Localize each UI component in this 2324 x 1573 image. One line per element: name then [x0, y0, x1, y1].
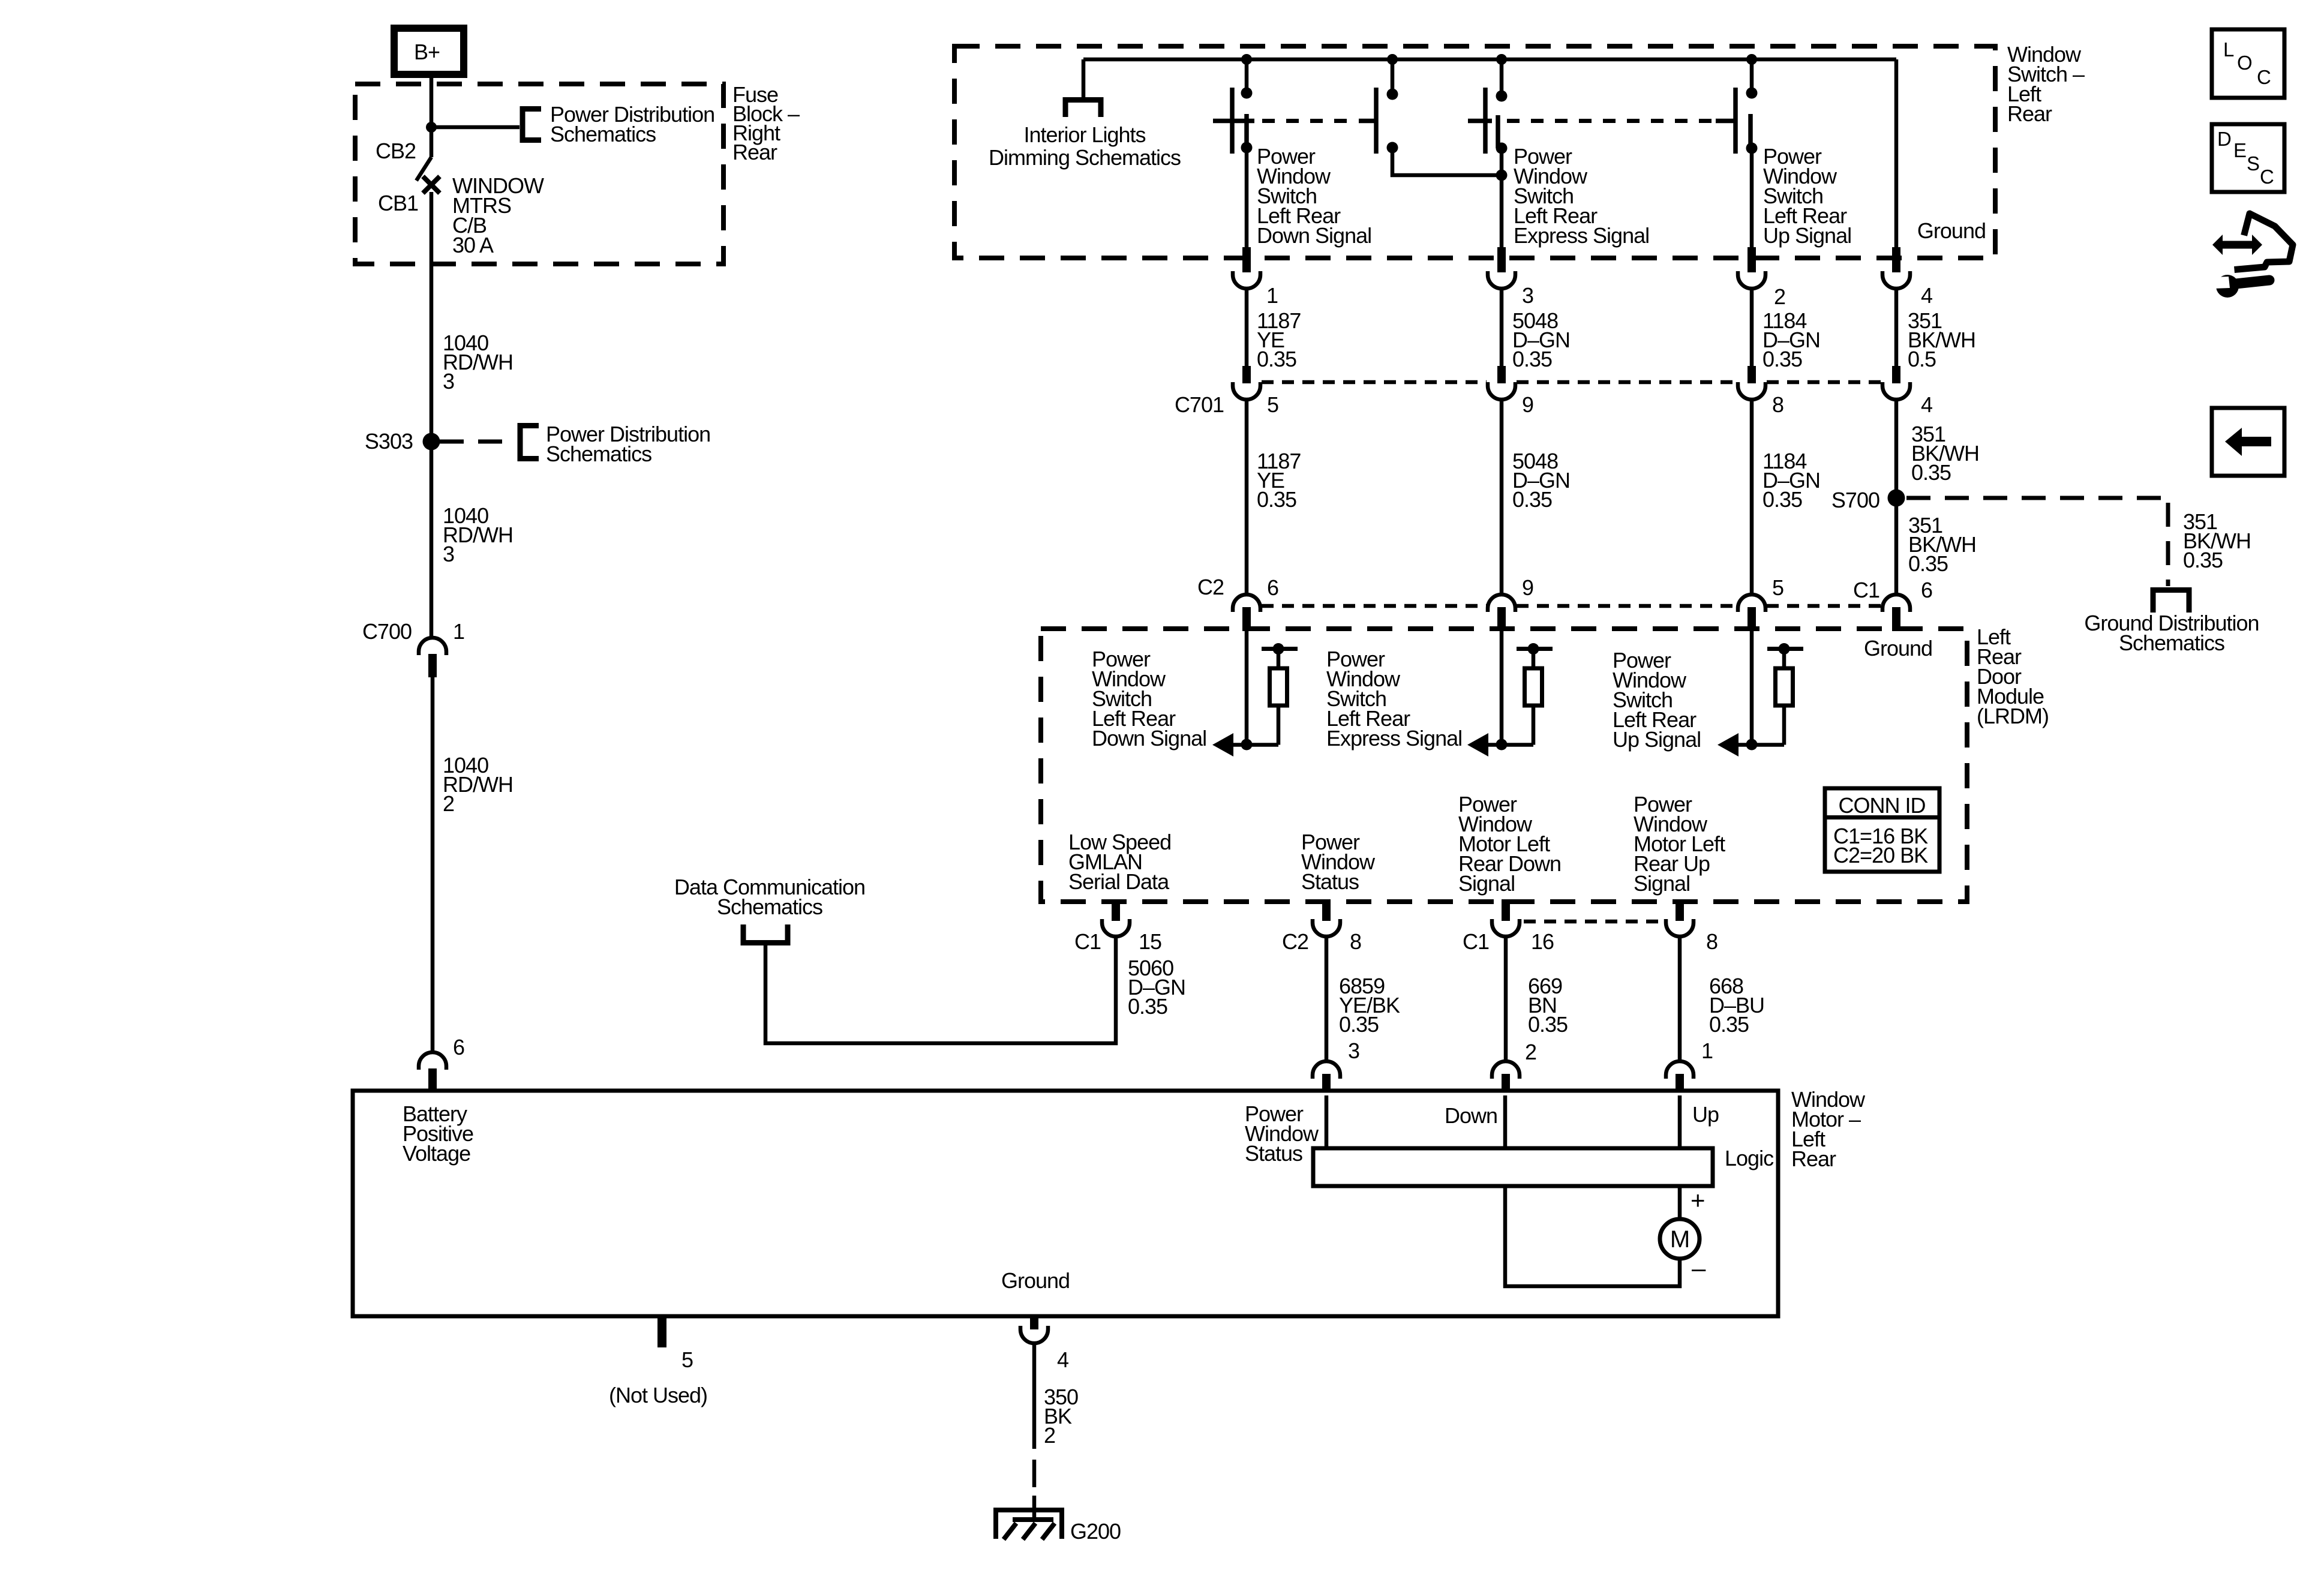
- switch SW2 express contacts: [1359, 59, 1398, 154]
- svg-text:30 A: 30 A: [452, 233, 494, 257]
- connector pin 3 (switch): [1488, 247, 1515, 289]
- node: junction in fuse block: [426, 122, 437, 133]
- svg-text:5: 5: [1267, 392, 1278, 417]
- wire 5048 D-GN upper segment: [1500, 289, 1504, 367]
- wire 1184 D-GN upper segment: [1750, 289, 1754, 367]
- svg-text:Logic: Logic: [1725, 1146, 1774, 1170]
- wire 1184 D-GN lower segment: [1750, 398, 1754, 595]
- connector C1 pin 6 (LRDM ground): [1882, 595, 1910, 631]
- svg-text:M: M: [1670, 1226, 1689, 1253]
- connector C2 pin 6 (LRDM): [1233, 595, 1260, 631]
- label Power Window Switch Left Rear Down Signal (top box): [1257, 144, 1371, 248]
- svg-text:Rear: Rear: [1791, 1146, 1836, 1171]
- svg-text:4: 4: [1057, 1347, 1068, 1372]
- arrow express-signal input: [1467, 733, 1533, 757]
- svg-text:0.35: 0.35: [1528, 1012, 1568, 1037]
- label WINDOW MTRS C/B 30 A: [452, 173, 544, 257]
- svg-text:S303: S303: [365, 429, 413, 454]
- svg-text:0.35: 0.35: [1908, 551, 1948, 576]
- node bus junction 4: [1746, 54, 1757, 65]
- svg-text:16: 16: [1531, 929, 1554, 954]
- svg-text:C: C: [2257, 66, 2271, 88]
- wire SW4 to pin 2: [1750, 148, 1754, 247]
- svg-text:2: 2: [443, 791, 454, 816]
- connector bracket: interior lights dimming: [1065, 100, 1101, 118]
- svg-text:0.35: 0.35: [1128, 994, 1167, 1019]
- wire logic to motor plus: [1678, 1186, 1682, 1219]
- label Power Window Status (motor): [1245, 1101, 1319, 1166]
- svg-text:3: 3: [443, 369, 454, 394]
- label Power Window Switch Left Rear Up Signal (top box): [1763, 144, 1851, 248]
- logic block: [1313, 1148, 1713, 1186]
- svg-text:0.35: 0.35: [1512, 487, 1552, 512]
- svg-text:15: 15: [1139, 929, 1161, 954]
- svg-text:CONN ID: CONN ID: [1839, 793, 1926, 818]
- wire: bus to interior lights tap: [1082, 59, 1086, 98]
- wire 351 BK/WH 0.5 segment: [1894, 289, 1899, 367]
- connector bracket: ground distribution: [2153, 590, 2189, 613]
- connector pin 5 (LRDM): [1738, 595, 1765, 631]
- svg-text:S: S: [2247, 152, 2259, 175]
- left rear door module LRDM (dashed box): [1041, 629, 1967, 902]
- wire SW1 to pin 1: [1245, 148, 1249, 247]
- svg-text:8: 8: [1706, 929, 1718, 954]
- inline connector C701 dotted row: [1262, 380, 1881, 385]
- node bus junction 3: [1496, 54, 1507, 65]
- connector C1 pin 15 (LRDM bottom): [1102, 899, 1130, 936]
- mechanical link SW1-SW2 (dashed): [1262, 119, 1357, 123]
- svg-text:Voltage: Voltage: [403, 1141, 470, 1166]
- label wire 1040 RD/WH 2: [443, 753, 513, 816]
- connector bracket: power distribution tap: [523, 109, 541, 140]
- svg-text:1: 1: [1266, 283, 1278, 308]
- svg-text:3: 3: [1522, 283, 1533, 308]
- connector pin 1 (switch): [1233, 247, 1260, 289]
- mechanical link SW3-SW4 (dashed): [1507, 119, 1715, 123]
- svg-text:CB1: CB1: [378, 191, 418, 215]
- resistor (express signal pull): [1517, 643, 1553, 745]
- icon LOC box: [2212, 29, 2284, 98]
- label wire 1040 RD/WH 3 (lower): [443, 503, 513, 566]
- svg-text:0.35: 0.35: [1512, 347, 1552, 371]
- svg-text:Rear: Rear: [732, 140, 777, 164]
- inline dotted row at C2/C1: [1262, 604, 1881, 608]
- label Fuse Block - Right Rear: [732, 82, 800, 164]
- svg-text:C: C: [2260, 166, 2274, 188]
- svg-text:C701: C701: [1175, 392, 1224, 417]
- svg-text:Status: Status: [1245, 1141, 1302, 1166]
- svg-text:C1: C1: [1463, 929, 1489, 954]
- svg-text:6: 6: [1921, 578, 1932, 602]
- wire: switch feed bus: [1083, 58, 1896, 62]
- connector pin 4 (motor ground): [1020, 1316, 1048, 1343]
- svg-text:9: 9: [1522, 575, 1533, 600]
- wire 5048 D-GN lower segment: [1500, 398, 1504, 595]
- wire 1187 YE lower segment: [1245, 398, 1249, 595]
- svg-text:(Not Used): (Not Used): [609, 1383, 707, 1407]
- svg-text:Status: Status: [1301, 869, 1359, 894]
- svg-text:Down Signal: Down Signal: [1257, 223, 1371, 248]
- label Data Communication Schematics: [674, 875, 865, 919]
- svg-text:0.35: 0.35: [1762, 347, 1802, 371]
- icon wrench: [2212, 275, 2269, 298]
- svg-text:Up: Up: [1692, 1102, 1719, 1127]
- svg-text:G200: G200: [1070, 1519, 1121, 1544]
- svg-text:4: 4: [1921, 283, 1932, 308]
- wire up into logic: [1678, 1095, 1682, 1148]
- svg-text:(LRDM): (LRDM): [1977, 704, 2049, 728]
- circuit breaker CB1/CB2 (WINDOW MTRS C/B 30 A): [416, 127, 440, 193]
- resistor (down signal pull): [1262, 643, 1298, 745]
- wire 1187 YE upper segment: [1245, 289, 1249, 367]
- svg-text:Up Signal: Up Signal: [1613, 727, 1701, 752]
- connector pin 1 (window motor): [1666, 1061, 1694, 1092]
- svg-text:Interior Lights: Interior Lights: [1023, 122, 1145, 147]
- wire 5060 serial data: [765, 936, 1116, 1043]
- connector pin 6 window motor: [419, 1052, 446, 1091]
- svg-text:CB2: CB2: [376, 139, 416, 163]
- svg-text:5: 5: [681, 1347, 693, 1372]
- svg-text:L: L: [2223, 38, 2234, 61]
- svg-text:O: O: [2237, 52, 2252, 74]
- svg-text:0.35: 0.35: [1911, 460, 1951, 485]
- svg-text:1: 1: [453, 619, 464, 644]
- svg-text:Dimming Schematics: Dimming Schematics: [989, 145, 1181, 170]
- connector C700 pin 1: [419, 638, 446, 677]
- svg-text:2: 2: [1525, 1040, 1536, 1064]
- svg-text:0.5: 0.5: [1908, 347, 1936, 371]
- label Battery Positive Voltage: [403, 1101, 473, 1166]
- svg-text:Ground: Ground: [1917, 218, 1986, 243]
- connector bracket: power distribution tap (S303): [520, 426, 539, 459]
- resistor (up signal pull): [1767, 643, 1803, 745]
- window motor - left rear (solid box): [353, 1091, 1778, 1316]
- svg-text:9: 9: [1522, 392, 1533, 417]
- label Power Distribution Schematics (S303): [546, 422, 710, 466]
- label Power Window Switch Left Rear Up Signal (LRDM): [1613, 648, 1701, 752]
- wire C700 to motor connector: [431, 677, 435, 1052]
- svg-text:Schematics: Schematics: [550, 122, 656, 146]
- wire up-signal into LRDM: [1750, 631, 1754, 745]
- connector C701 pin 4: [1882, 366, 1910, 400]
- icon back-arrow box: [2212, 408, 2284, 476]
- node bus junction 2: [1387, 54, 1398, 65]
- wire express column to pin 3: [1500, 148, 1504, 247]
- svg-text:6: 6: [453, 1035, 464, 1059]
- node L-link join: [1496, 170, 1508, 181]
- wire B+ to fuse block: [430, 74, 434, 127]
- svg-text:0.35: 0.35: [1257, 347, 1296, 371]
- switch SW4 up-signal contacts: [1716, 59, 1758, 154]
- svg-text:Down Signal: Down Signal: [1092, 726, 1206, 751]
- wire 668 D-BU up: [1678, 936, 1682, 1061]
- ground G200: [996, 1510, 1062, 1539]
- label Power Window Switch Left Rear Express Signal (LRDM): [1326, 647, 1462, 751]
- wire down-signal into LRDM: [1245, 631, 1249, 745]
- svg-text:C700: C700: [362, 619, 412, 644]
- icon diagnostic arrow: [2212, 235, 2262, 255]
- svg-text:Ground: Ground: [1001, 1268, 1070, 1293]
- dashed tap from S700 to ground distribution: [1906, 498, 2168, 586]
- svg-text:8: 8: [1772, 392, 1783, 417]
- label Power Window Motor Left Rear Down Signal: [1458, 792, 1561, 896]
- wire ground bus drop to pin 4: [1894, 59, 1899, 247]
- svg-text:6: 6: [1267, 575, 1278, 600]
- svg-text:0.35: 0.35: [2183, 548, 2223, 572]
- wire 350 BK to ground: [1032, 1343, 1037, 1520]
- svg-text:+: +: [1691, 1186, 1705, 1214]
- svg-text:Express Signal: Express Signal: [1326, 726, 1462, 751]
- svg-text:0.35: 0.35: [1257, 487, 1296, 512]
- label Power Window Switch Left Rear Down Signal (LRDM): [1092, 647, 1206, 751]
- connector pin 9 (LRDM): [1488, 595, 1515, 631]
- svg-text:0.35: 0.35: [1762, 487, 1802, 512]
- svg-text:Express Signal: Express Signal: [1514, 223, 1649, 248]
- svg-text:S700: S700: [1831, 488, 1879, 512]
- label Left Rear Door Module (LRDM): [1977, 625, 2049, 728]
- label Power Window Status (LRDM): [1301, 830, 1376, 894]
- svg-text:Signal: Signal: [1458, 871, 1515, 896]
- svg-text:3: 3: [1348, 1038, 1359, 1063]
- svg-text:Down: Down: [1445, 1103, 1497, 1128]
- svg-text:C1: C1: [1853, 578, 1879, 602]
- splice S303: [423, 433, 440, 451]
- svg-text:B+: B+: [414, 40, 440, 64]
- svg-text:Signal: Signal: [1634, 871, 1690, 896]
- wire junction to power distribution tap: [431, 125, 520, 130]
- svg-text:C1: C1: [1074, 929, 1101, 954]
- svg-text:Schematics: Schematics: [546, 442, 651, 466]
- label Low Speed GMLAN Serial Data: [1068, 830, 1171, 894]
- fuse block - right rear (dashed box): [355, 84, 723, 264]
- label 351 BK/WH 0.35 (right): [2183, 509, 2251, 572]
- wire down into logic: [1503, 1095, 1508, 1148]
- svg-text:4: 4: [1921, 392, 1932, 417]
- connector C701 pin 5: [1233, 366, 1260, 400]
- connector C1 pin 16 (LRDM bottom): [1492, 899, 1520, 936]
- wire 351 BK/WH to S700: [1894, 398, 1899, 595]
- svg-text:D: D: [2217, 128, 2231, 150]
- wire logic to motor loop: [1505, 1186, 1680, 1286]
- svg-text:8: 8: [1350, 929, 1361, 954]
- svg-text:2: 2: [1044, 1423, 1055, 1448]
- dotted link between C1 pins: [1524, 920, 1662, 924]
- svg-text:5: 5: [1772, 575, 1783, 600]
- svg-text:C2=20 BK: C2=20 BK: [1833, 843, 1928, 867]
- svg-text:Ground: Ground: [1864, 636, 1932, 661]
- label Power Window Motor Left Rear Up Signal: [1634, 792, 1725, 896]
- wire SW2 lower contact L-link to express column: [1392, 148, 1502, 175]
- dashed tap from S303: [440, 440, 515, 444]
- svg-text:2: 2: [1774, 284, 1785, 309]
- connector pin 4 (switch ground): [1882, 247, 1910, 289]
- label Power Distribution Schematics (top): [550, 102, 714, 146]
- svg-text:Rear: Rear: [2007, 101, 2052, 126]
- label Interior Lights Dimming Schematics: [989, 122, 1181, 170]
- connector bracket: data communication: [743, 924, 788, 943]
- svg-text:3: 3: [443, 542, 454, 566]
- svg-text:E: E: [2233, 139, 2246, 161]
- switch SW3 express column contacts: [1468, 59, 1508, 154]
- svg-text:0.35: 0.35: [1709, 1012, 1749, 1037]
- connector pin 2 (switch): [1738, 247, 1765, 289]
- svg-text:Serial Data: Serial Data: [1068, 869, 1170, 894]
- node up-signal: [1746, 739, 1758, 751]
- motor M: [1660, 1219, 1700, 1259]
- window switch - left rear (dashed box): [954, 46, 1995, 258]
- svg-text:Schematics: Schematics: [717, 894, 822, 919]
- arrow up-signal input: [1718, 733, 1784, 757]
- wire status into logic: [1325, 1095, 1329, 1148]
- label Ground Distribution Schematics: [2084, 611, 2259, 655]
- svg-text:Up Signal: Up Signal: [1763, 223, 1851, 248]
- svg-text:C2: C2: [1282, 929, 1308, 954]
- pin 5 stub (not used): [657, 1316, 666, 1347]
- icon DESC box: [2212, 124, 2284, 192]
- node bus junction 1: [1241, 54, 1252, 65]
- node express-signal: [1496, 739, 1508, 751]
- wire 6859 YE/BK status: [1325, 936, 1329, 1061]
- connector C2 pin 8 (LRDM bottom): [1313, 899, 1340, 936]
- node down-signal: [1241, 739, 1253, 751]
- svg-text:0.35: 0.35: [1339, 1012, 1379, 1037]
- icon diagnostic outline: [2238, 214, 2293, 269]
- svg-text:Schematics: Schematics: [2119, 631, 2224, 655]
- svg-text:–: –: [1692, 1254, 1706, 1282]
- label Power Window Switch Left Rear Express Signal (top box): [1514, 144, 1649, 248]
- label Window Switch - Left Rear: [2007, 42, 2085, 126]
- connector pin 3 (window motor): [1313, 1061, 1340, 1092]
- svg-text:1: 1: [1701, 1038, 1713, 1063]
- label Window Motor - Left Rear: [1791, 1087, 1866, 1171]
- splice S700: [1888, 490, 1905, 507]
- connector C701 pin 8: [1738, 366, 1765, 400]
- label wire 1040 RD/WH 3 (upper): [443, 331, 513, 394]
- CONN ID table: [1825, 788, 1939, 872]
- switch SW1 down-signal contacts: [1213, 59, 1254, 154]
- connector C701 pin 9: [1488, 366, 1515, 400]
- wire 669 BN down: [1504, 936, 1508, 1061]
- arrow down-signal input: [1212, 733, 1278, 757]
- connector pin 8 up (LRDM bottom): [1666, 899, 1694, 936]
- wire express-signal into LRDM: [1500, 631, 1504, 745]
- battery feed B+: [394, 28, 464, 74]
- wire CB1 down to S303 and C700: [430, 192, 434, 637]
- svg-text:C2: C2: [1197, 575, 1224, 599]
- connector pin 2 (window motor): [1492, 1061, 1520, 1092]
